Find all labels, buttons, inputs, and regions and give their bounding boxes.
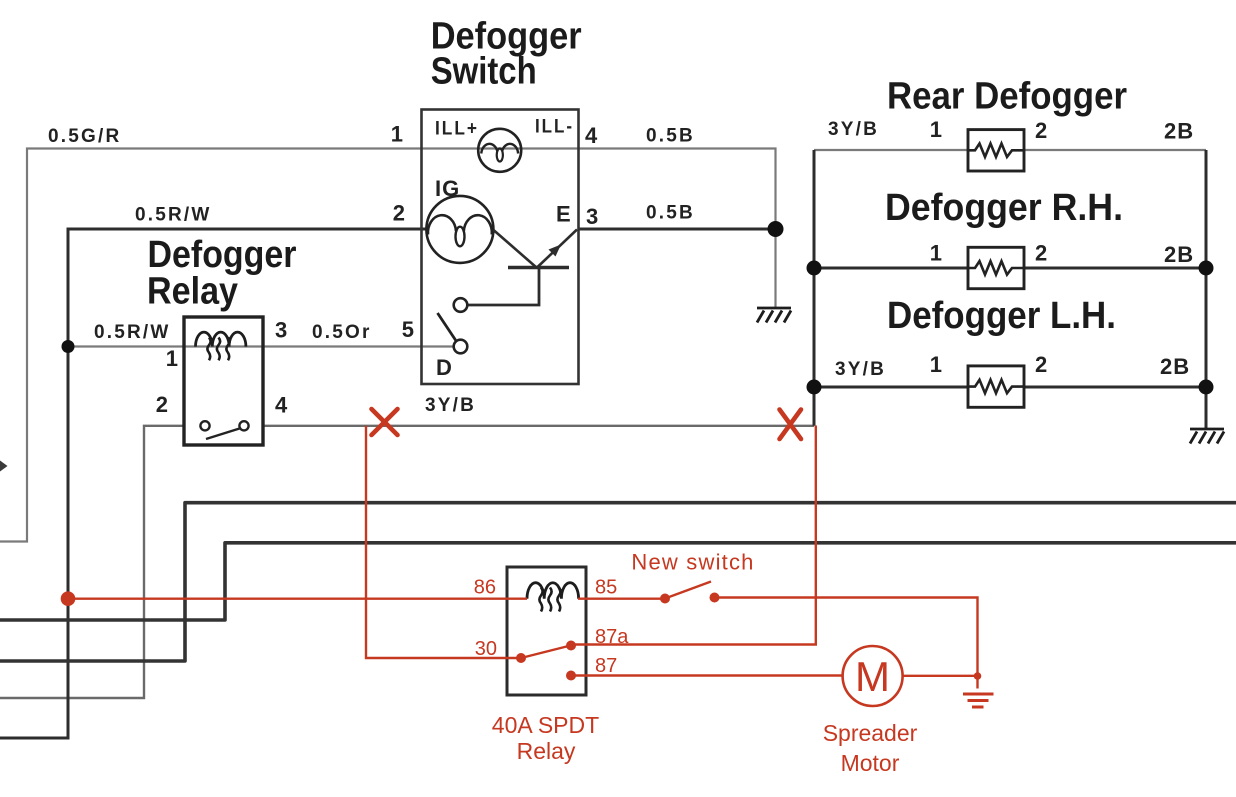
svg-text:2B: 2B — [1164, 119, 1194, 144]
svg-text:0.5Or: 0.5Or — [312, 322, 372, 343]
svg-text:2: 2 — [1035, 241, 1048, 266]
svg-text:4: 4 — [585, 123, 598, 148]
svg-text:3Y/B: 3Y/B — [828, 119, 879, 140]
svg-text:1: 1 — [930, 117, 943, 142]
svg-text:3: 3 — [275, 318, 288, 343]
svg-text:86: 86 — [474, 577, 496, 599]
svg-text:1: 1 — [166, 346, 179, 371]
svg-text:0.5B: 0.5B — [646, 203, 695, 224]
svg-text:Switch: Switch — [431, 51, 537, 93]
svg-text:New switch: New switch — [631, 550, 754, 575]
svg-text:2: 2 — [1035, 352, 1048, 377]
svg-text:4: 4 — [275, 393, 288, 418]
svg-text:0.5R/W: 0.5R/W — [94, 322, 171, 343]
svg-text:40A SPDT: 40A SPDT — [492, 712, 599, 738]
svg-text:2B: 2B — [1160, 354, 1190, 379]
svg-text:0.5B: 0.5B — [646, 126, 695, 147]
svg-text:85: 85 — [595, 577, 617, 599]
svg-text:87: 87 — [595, 655, 617, 677]
svg-text:Defogger L.H.: Defogger L.H. — [887, 295, 1116, 337]
svg-text:Relay: Relay — [517, 738, 576, 764]
svg-text:3: 3 — [586, 204, 599, 229]
svg-text:ILL+: ILL+ — [435, 119, 479, 140]
svg-text:ILL-: ILL- — [535, 117, 574, 138]
svg-text:M: M — [855, 653, 890, 700]
svg-text:1: 1 — [930, 241, 943, 266]
svg-text:5: 5 — [402, 317, 415, 342]
svg-text:30: 30 — [475, 638, 497, 660]
svg-text:87a: 87a — [595, 626, 629, 648]
svg-text:2: 2 — [393, 201, 406, 226]
svg-text:IG: IG — [435, 176, 460, 201]
svg-text:Relay: Relay — [147, 271, 238, 313]
svg-text:Spreader: Spreader — [823, 720, 918, 746]
svg-text:E: E — [556, 202, 572, 227]
svg-text:1: 1 — [391, 122, 404, 147]
svg-text:3Y/B: 3Y/B — [425, 395, 476, 416]
svg-text:Defogger R.H.: Defogger R.H. — [885, 187, 1123, 229]
svg-text:2B: 2B — [1164, 242, 1194, 267]
svg-text:Rear Defogger: Rear Defogger — [887, 76, 1127, 118]
svg-text:D: D — [436, 355, 453, 380]
svg-text:2: 2 — [156, 392, 169, 417]
svg-text:3Y/B: 3Y/B — [835, 359, 886, 380]
svg-text:0.5R/W: 0.5R/W — [135, 205, 212, 226]
svg-text:2: 2 — [1035, 118, 1048, 143]
svg-text:Motor: Motor — [841, 750, 900, 776]
svg-text:0.5G/R: 0.5G/R — [48, 126, 121, 147]
svg-text:1: 1 — [930, 352, 943, 377]
